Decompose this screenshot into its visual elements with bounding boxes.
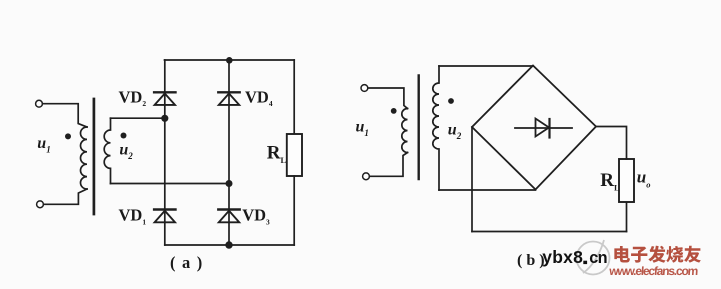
- wire u2 bottom to bridge middle branch: [111, 183, 230, 185]
- polarity dot u1 (a): [65, 133, 71, 139]
- diode VD4: [218, 92, 239, 105]
- watermark char 发: [648, 246, 665, 263]
- polarity dot u2 (a): [121, 133, 127, 139]
- transformer T1 primary winding u1: [80, 127, 87, 189]
- svg-text:cn: cn: [589, 249, 607, 267]
- transformer T2 primary terminal bottom (circuit b): [363, 173, 370, 180]
- diode symbol inside bridge: [515, 119, 572, 138]
- watermark circle swoosh: [577, 240, 610, 275]
- junction dot bottom rail: [225, 241, 232, 248]
- wire u2 top to bridge top vertex: [439, 65, 533, 67]
- wire bottom rail up to RL (b): [626, 202, 628, 232]
- transformer T2 secondary winding u2 (b): [433, 66, 439, 190]
- transformer T2 primary winding u1 (b): [402, 109, 408, 153]
- watermark char 子: [631, 247, 647, 263]
- diode VD3: [218, 210, 239, 223]
- wire u2 bottom to bridge bottom vertex: [439, 189, 536, 191]
- wire from top terminal to T1 primary coil: [43, 104, 87, 127]
- transformer T1 primary terminal bottom (circuit a): [37, 201, 44, 208]
- bottom rail (b): [472, 231, 627, 233]
- junction dot middle branch: [226, 180, 233, 187]
- wire bridge left vertex down: [471, 127, 473, 232]
- watermark char 烧: [666, 246, 683, 263]
- resistor RL (b): [619, 159, 634, 202]
- svg-text:VD2: VD2: [119, 88, 147, 109]
- wire from T1 primary coil to bottom terminal: [44, 189, 87, 204]
- svg-text:www.elecfans.com: www.elecfans.com: [608, 264, 699, 278]
- wire top rail through VD2 to junction: [164, 60, 166, 118]
- watermark char 电: [614, 246, 630, 263]
- diode VD1: [154, 210, 175, 223]
- svg-text:u2: u2: [119, 142, 133, 162]
- polarity dot u1 (b): [391, 108, 397, 114]
- top rail (a): [165, 59, 295, 61]
- polarity dot u2 (b): [448, 98, 454, 104]
- wire top rail through VD4 to middle junction: [228, 60, 230, 184]
- wire u2 top to bridge left branch: [111, 117, 165, 119]
- wire RL to bottom rail (a): [293, 176, 295, 245]
- junction dot below VD2: [161, 115, 168, 122]
- wire junction down through VD1 to bottom rail: [164, 118, 166, 245]
- svg-text:ybx8: ybx8: [542, 247, 583, 267]
- svg-text:( b ): ( b ): [517, 252, 545, 269]
- svg-text:RL: RL: [267, 142, 287, 165]
- svg-text:VD4: VD4: [245, 88, 273, 109]
- wire RL top to bridge right vertex: [596, 127, 627, 160]
- transformer T1 secondary winding u2 (a): [104, 118, 110, 183]
- svg-text:VD3: VD3: [242, 206, 270, 227]
- bridge rectifier diamond: [472, 66, 596, 190]
- wire middle junction through VD3 to bottom rail: [228, 184, 230, 246]
- watermark elecfans chinese characters: [614, 246, 701, 263]
- transformer T1 primary terminal top (circuit a): [36, 100, 43, 107]
- transformer T2 core: [418, 76, 420, 180]
- transformer T1 core: [93, 99, 96, 214]
- resistor RL (a): [287, 134, 302, 176]
- wire top rail to RL (a): [293, 60, 295, 134]
- svg-text:RL: RL: [600, 170, 620, 193]
- svg-text:( a ): ( a ): [170, 253, 204, 272]
- svg-text:u2: u2: [448, 122, 462, 142]
- svg-text:u1: u1: [356, 119, 369, 139]
- wire from T2 primary coil to bottom terminal: [370, 153, 408, 177]
- svg-text:VD1: VD1: [119, 206, 147, 227]
- wire from top terminal to T2 primary coil: [368, 88, 408, 109]
- transformer T2 primary terminal top (circuit b): [361, 85, 368, 92]
- svg-text:u1: u1: [37, 135, 50, 155]
- bottom rail (a): [165, 244, 294, 246]
- svg-text:uo: uo: [637, 167, 651, 189]
- diode VD2: [154, 92, 175, 105]
- watermark char 友: [684, 246, 701, 263]
- junction dot top rail: [226, 57, 233, 64]
